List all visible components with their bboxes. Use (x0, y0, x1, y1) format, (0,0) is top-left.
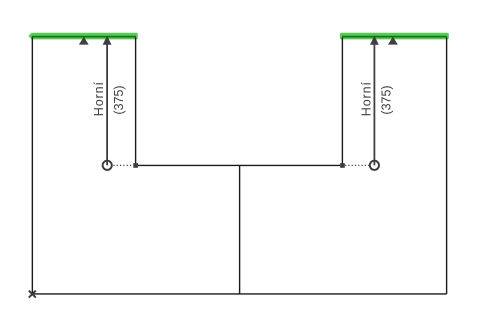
right wall midpoint triangle marker (388, 37, 398, 45)
wire: dotted leader left (113, 164, 133, 166)
wire: bottom wall horizontal (32, 293, 446, 295)
left wall midpoint triangle marker (79, 37, 89, 45)
node: right dimension anchor circle (370, 161, 379, 170)
svg-text:(375): (375) (112, 85, 126, 114)
wire: right outer wall vertical (446, 38, 448, 295)
wire: middle wall horizontal (136, 164, 343, 166)
wall segment highlight right (green bar) (340, 33, 449, 40)
node: right wall corner junction square (340, 163, 345, 168)
wire: top-right wall edge (dark line inside green) (342, 36, 447, 38)
node: left dimension anchor circle (103, 161, 112, 170)
wire: left dimension line stem (106, 45, 108, 166)
left dimension arrowhead (103, 36, 112, 45)
wire: inner-right wall vertical (341, 38, 343, 166)
wire: right dimension line stem (373, 45, 375, 166)
right dimension arrowhead (370, 36, 379, 45)
wire: left outer wall vertical (31, 38, 33, 295)
node: origin cross marker bottom-left (29, 291, 36, 298)
svg-text:Horní: Horní (359, 81, 373, 116)
wire: top-left wall edge (dark line inside green) (32, 36, 136, 38)
node: left wall corner junction square (133, 163, 138, 168)
svg-text:Horní: Horní (92, 81, 106, 116)
wall segment highlight left (green bar) (28, 33, 137, 40)
wire: inner-left wall vertical (135, 38, 137, 166)
wire: dotted leader right (345, 164, 370, 166)
wire: middle wall vertical (239, 165, 241, 294)
svg-text:(375): (375) (379, 85, 393, 114)
